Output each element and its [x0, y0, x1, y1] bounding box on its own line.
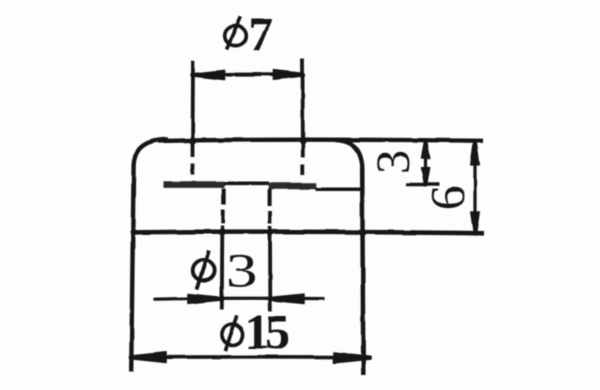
- svg-text:6: 6: [420, 186, 475, 211]
- svg-text:7: 7: [249, 9, 273, 62]
- svg-text:15: 15: [245, 304, 291, 360]
- svg-text:3: 3: [367, 150, 420, 174]
- svg-text:3: 3: [226, 245, 258, 298]
